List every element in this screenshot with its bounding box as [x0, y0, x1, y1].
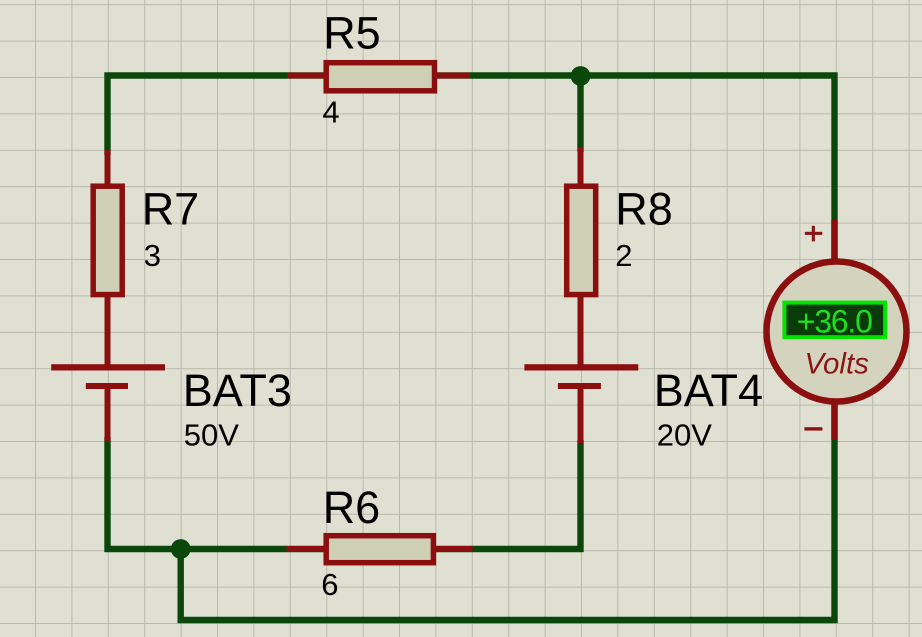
svg-text:R6: R6	[323, 482, 381, 533]
node junction bottom-left	[171, 539, 191, 559]
svg-text:3: 3	[144, 238, 161, 273]
svg-text:R7: R7	[142, 184, 200, 235]
battery BAT3	[51, 364, 165, 389]
svg-text:R8: R8	[615, 184, 673, 235]
wire left vertical lower part	[104, 437, 110, 552]
resistor R6	[287, 536, 473, 563]
battery BAT4	[524, 364, 638, 389]
wire junction drop	[177, 546, 183, 623]
node junction top	[571, 66, 591, 86]
resistor R7 with battery BAT3 pins	[93, 150, 122, 442]
resistor R5	[287, 63, 470, 91]
wire left vertical	[104, 73, 110, 156]
svg-text:+36.0: +36.0	[797, 303, 872, 339]
voltmeter plus terminal mark	[805, 226, 823, 242]
wire BAT4 bottom stub	[577, 440, 583, 552]
svg-text:4: 4	[322, 95, 339, 130]
voltmeter minus terminal mark	[804, 427, 822, 430]
wire R8 top stub	[577, 73, 583, 153]
wire top horizontal net	[105, 72, 838, 78]
voltmeter bottom pin	[831, 402, 837, 440]
svg-text:BAT4: BAT4	[654, 365, 763, 416]
wire right vertical (voltmeter branch)	[831, 73, 837, 624]
svg-text:6: 6	[321, 567, 338, 602]
svg-text:R5: R5	[323, 7, 381, 58]
wire bottom horizontal	[178, 617, 838, 623]
svg-text:20V: 20V	[657, 418, 712, 453]
svg-text:2: 2	[615, 238, 632, 273]
voltmeter top pin	[831, 220, 837, 262]
svg-text:BAT3: BAT3	[183, 365, 292, 416]
wire bottom-left horizontal	[105, 546, 584, 552]
svg-text:50V: 50V	[184, 418, 239, 453]
voltmeter U1 body	[767, 262, 907, 402]
resistor R8 with battery BAT4 pins	[567, 147, 596, 443]
svg-text:Volts: Volts	[804, 347, 869, 380]
